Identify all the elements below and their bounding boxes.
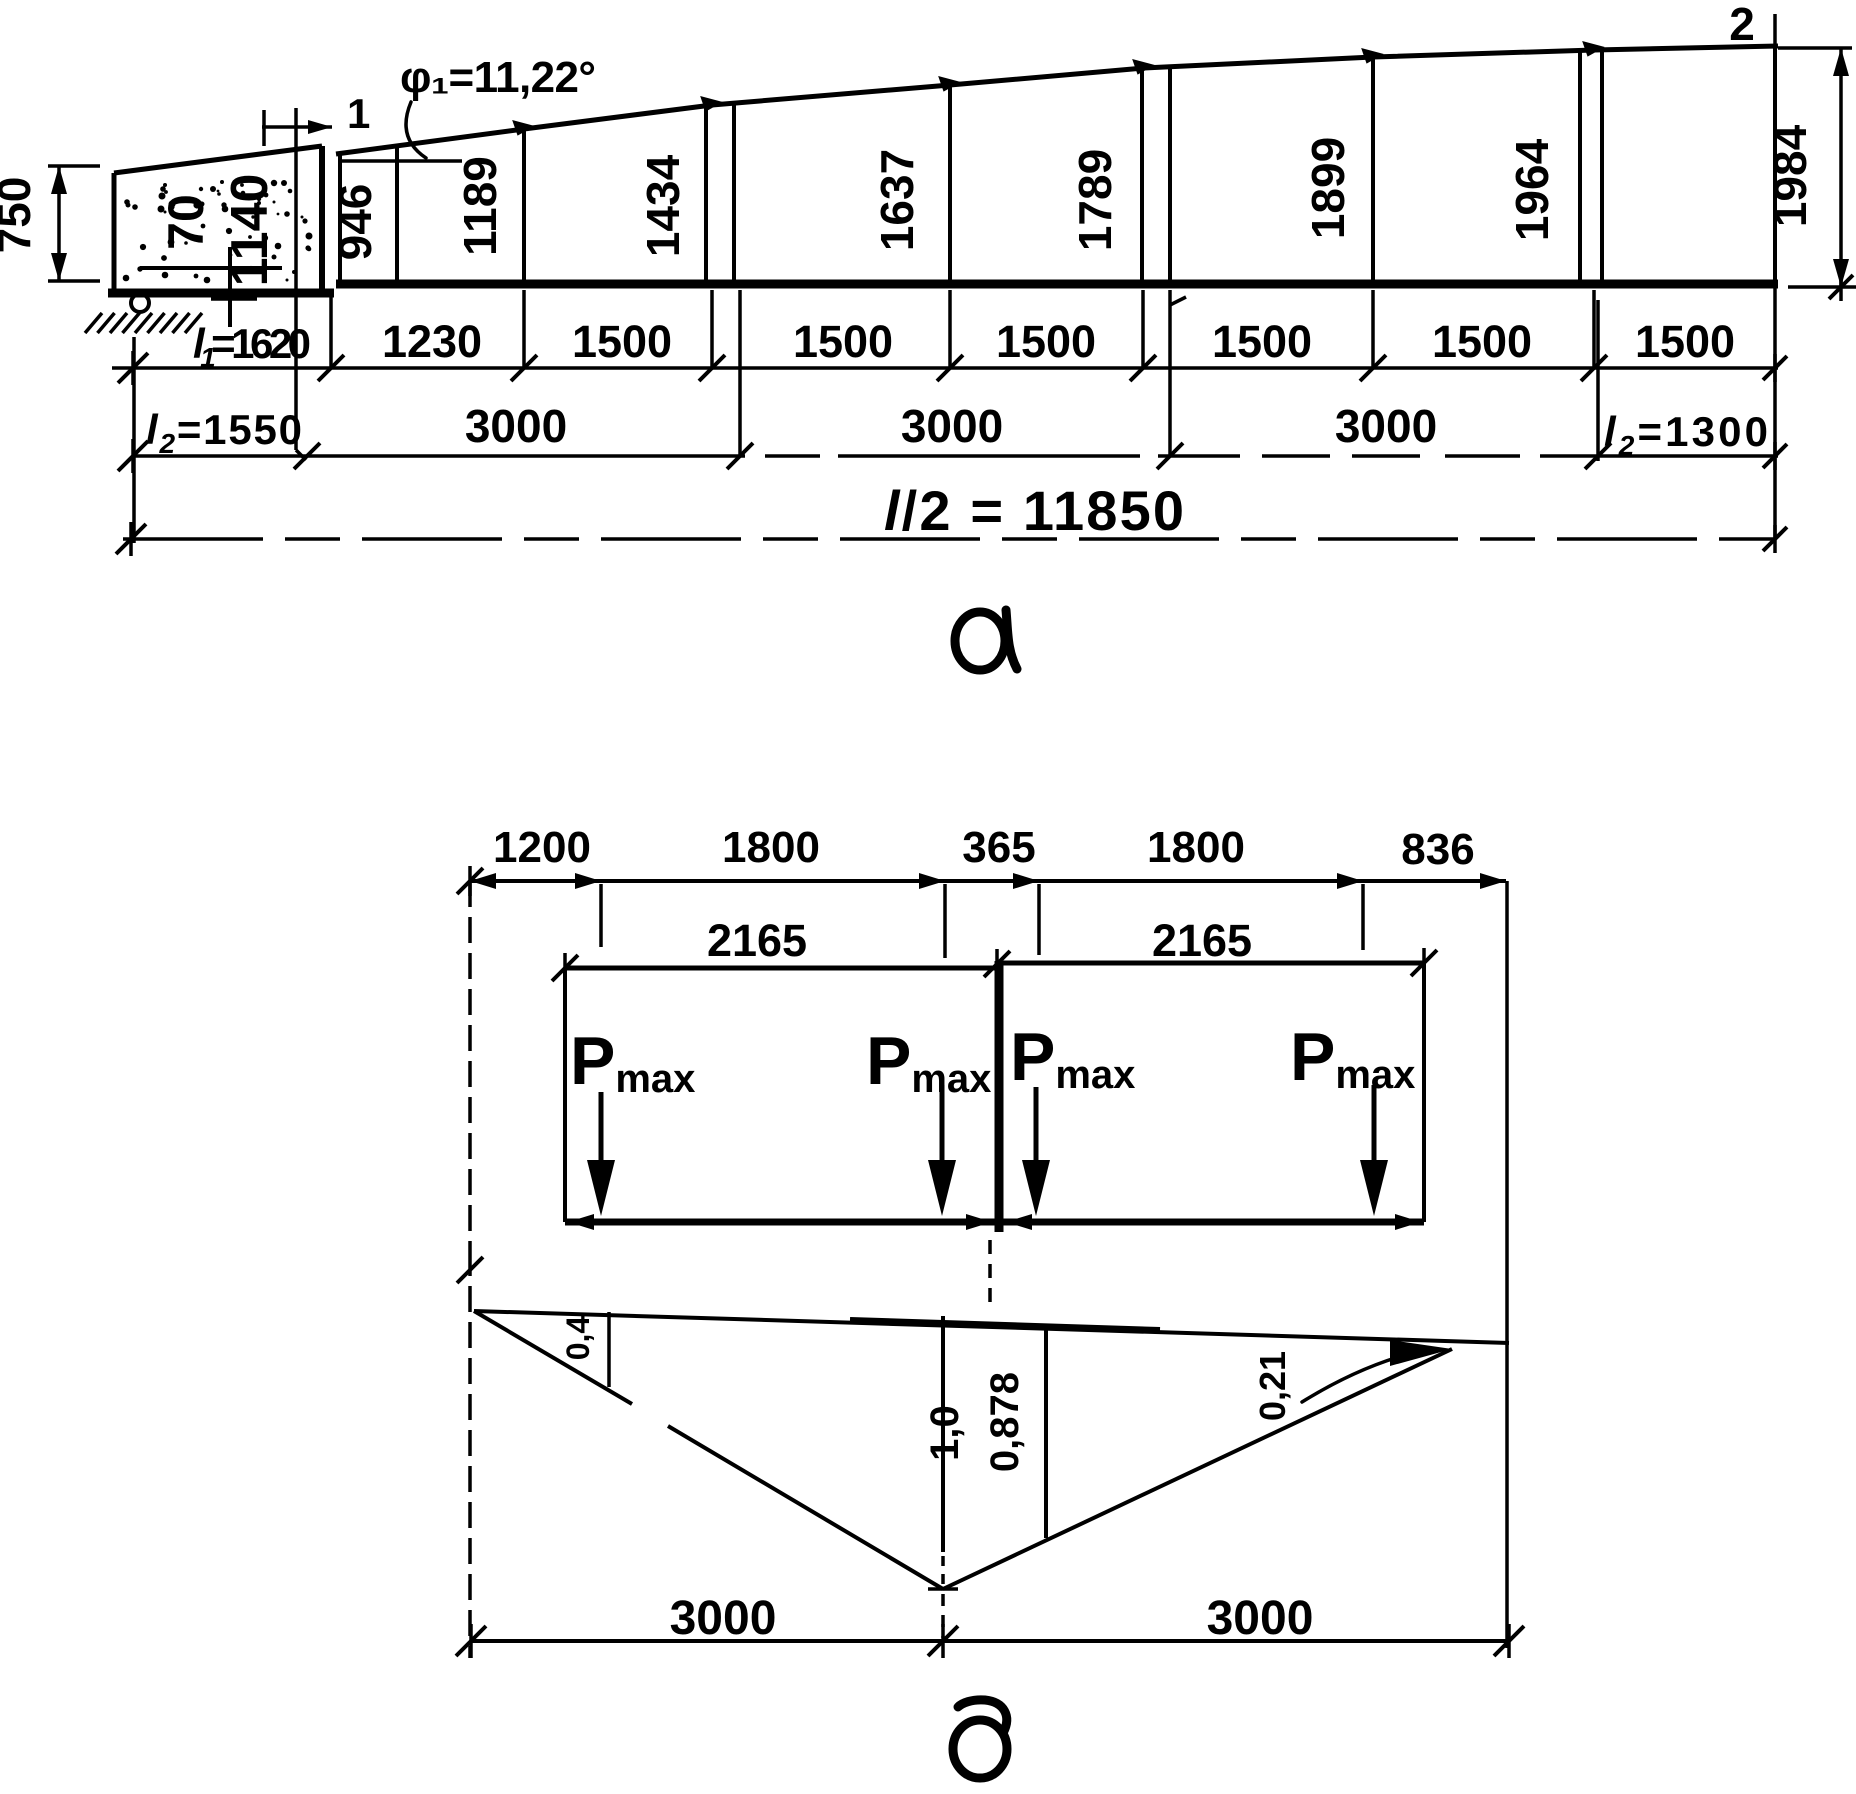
- svg-text:2165: 2165: [1152, 915, 1252, 966]
- svg-text:1189: 1189: [454, 156, 506, 256]
- svg-text:750: 750: [0, 177, 40, 254]
- svg-text:1500: 1500: [572, 316, 672, 367]
- svg-text:1500: 1500: [996, 316, 1096, 367]
- svg-text:1789: 1789: [1069, 149, 1121, 251]
- svg-text:0,4: 0,4: [560, 1316, 596, 1361]
- svg-text:1500: 1500: [1212, 316, 1312, 367]
- svg-text:1984: 1984: [1764, 124, 1816, 227]
- svg-text:3000: 3000: [465, 400, 567, 452]
- svg-text:1140: 1140: [221, 174, 279, 287]
- svg-text:1500: 1500: [1432, 316, 1532, 367]
- svg-text:1964: 1964: [1506, 138, 1558, 241]
- svg-text:3000: 3000: [901, 400, 1003, 452]
- svg-text:1230: 1230: [382, 316, 482, 367]
- svg-text:3000: 3000: [1335, 400, 1437, 452]
- svg-text:836: 836: [1401, 825, 1474, 874]
- svg-text:1500: 1500: [793, 316, 893, 367]
- svg-text:1434: 1434: [637, 154, 689, 257]
- svg-text:1800: 1800: [722, 823, 820, 872]
- svg-text:2: 2: [1729, 0, 1755, 50]
- svg-text:365: 365: [962, 823, 1035, 872]
- svg-text:70: 70: [158, 194, 214, 250]
- svg-text:0,21: 0,21: [1252, 1351, 1293, 1421]
- svg-text:3000: 3000: [1207, 1592, 1314, 1645]
- svg-text:1,0: 1,0: [923, 1405, 967, 1461]
- svg-text:946: 946: [329, 184, 381, 261]
- svg-text:0,878: 0,878: [983, 1372, 1027, 1472]
- svg-text:1200: 1200: [493, 823, 591, 872]
- svg-text:1800: 1800: [1147, 823, 1245, 872]
- svg-text:3000: 3000: [670, 1592, 777, 1645]
- svg-text:1500: 1500: [1635, 316, 1735, 367]
- svg-text:2165: 2165: [707, 915, 807, 966]
- svg-text:1637: 1637: [871, 149, 923, 251]
- svg-text:1: 1: [347, 90, 370, 137]
- svg-text:φ₁=11,22°: φ₁=11,22°: [400, 53, 596, 102]
- svg-text:l/2 = 11850: l/2 = 11850: [884, 479, 1184, 542]
- svg-text:l1=1620: l1=1620: [193, 320, 311, 373]
- svg-text:1899: 1899: [1302, 137, 1354, 239]
